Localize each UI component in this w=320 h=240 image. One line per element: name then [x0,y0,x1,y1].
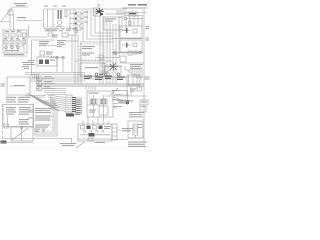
battery box with diagonal [11,126,36,141]
wire: divider 2 [112,52,143,54]
note text block right [130,64,143,69]
wire: legend internal drop [7,116,9,127]
wire: engine box lower rail [76,138,112,148]
wire: vertical drop from label [0,8,14,31]
wire: bottom rail left [2,139,72,144]
dark label right col [129,112,144,117]
wire: right frame vertical [143,9,145,142]
note text left margin [22,62,29,69]
relay box right col [140,100,148,105]
legend column 2 text [19,107,31,125]
relay box A outline [120,26,142,38]
terminal table [75,98,82,114]
connector pair P1 [37,76,56,80]
connector plug J2 hatched [100,99,107,104]
wire: connector pig-tails right [72,98,76,112]
wire: top frame bus [44,8,127,10]
relay label text [39,41,57,46]
motor label text [57,40,78,47]
fuse cell 2 [87,126,91,130]
legend header text row 1 [6,97,30,98]
switch marks on wire [50,56,65,59]
footnote text right [128,142,147,148]
control head box [37,56,57,67]
wire: main left vertical [32,40,56,76]
label text with underline [16,17,42,21]
lamp circle [57,20,63,27]
fuse cell 1 [81,126,85,130]
node label text top-left [13,3,28,7]
connector pair P2 [37,81,56,85]
bold net label 3 [117,73,125,80]
connector ring [139,51,142,54]
relay box label text [82,46,95,56]
connector label dark [66,114,80,117]
wire: divider [112,38,143,40]
ground symbol [41,129,46,132]
wire: harness bus band lower [25,89,66,98]
fuse cell 4 [84,126,104,133]
wire: fuse panel internal verticals [48,9,68,27]
wire: right area rail [105,95,147,97]
legend header text row 2 [6,99,29,102]
wire: bus verticals center-right [100,16,119,84]
heavy junction rail double line [37,84,144,86]
junction block box [87,91,113,117]
margin text left edge [1,84,6,87]
engine box label [104,126,111,129]
fuel pump box [128,121,143,138]
splice dark spot [126,90,129,105]
connector label text C100 [47,29,55,37]
legend column 1 text [6,107,16,115]
relay contact marks [102,64,105,74]
note text mid-bottom col [28,108,52,113]
wire: connector feeds left [48,95,66,112]
fuel sender element hatched [133,124,138,138]
wire: left margin dashes [2,104,4,142]
gauge G6 [16,40,26,44]
bulkhead connector C200 [66,95,72,113]
sender label text [117,128,133,131]
gauge G1 [5,31,9,37]
switch contacts dark cells [39,60,55,65]
capacitor C3 [134,51,137,54]
battery terminal dark [1,141,7,144]
splice ticks below rail [86,86,95,90]
relay coil component [100,55,104,59]
resistor element twin bars [58,10,62,19]
connector plug J1 hatched [90,99,97,104]
wire: harness bus band [25,73,143,82]
wire: fan drop verticals [51,96,55,110]
note text mid-bottom col 3 [35,125,50,128]
label box top-right [128,12,137,16]
wire: bottom right rail [110,138,143,140]
margin text right lower [145,77,150,80]
junction box small [120,56,126,62]
fuse F2 [75,17,88,21]
wire: diagonal harness fan [27,93,59,111]
wire: drops from switch [57,59,63,72]
indicator lamp L1 [5,46,8,49]
relay box dashed upper [80,44,104,60]
instrument cluster box [3,30,27,53]
cluster label text [4,50,24,55]
wire: ticks into engine box [83,117,108,125]
capacitor C1 small box [133,29,137,33]
connector hatch ticks [116,10,126,14]
diode D2 [122,43,131,48]
wire: lead right with label [113,101,128,104]
fuse F1 [70,9,88,31]
note text mid-bottom col 2 [28,116,52,121]
center junction web [95,58,122,78]
wire: staircase right [125,66,143,78]
wire: converging leads [113,97,127,104]
fuse F4 [75,27,83,30]
lower left panel box [7,77,30,95]
wire: box divider line [75,60,105,62]
capacitor C2 small box [133,43,137,47]
bold net label 1 [84,75,92,79]
legend box [3,105,33,127]
sender unit connector [112,124,117,140]
engine box bottom-center [78,124,112,141]
starter solenoid dark [80,133,110,137]
resistor pack right col [140,107,146,113]
wire: right horizontal 63 [120,62,144,64]
connector pair P3 [37,86,56,90]
blower switch box [62,33,78,37]
wire: nested L runs to right boxes [83,10,113,42]
resistor R3 [137,87,142,91]
relay box B outline [120,40,142,52]
switch S1 small box [8,10,13,15]
margin note text right [146,26,150,41]
wire: nested legend corners [35,101,57,136]
wire: lead right 2 with label [113,106,122,108]
wire label tags with leaders [112,90,129,100]
capacitor C4 [4,124,9,128]
switch box S2 [40,51,53,55]
inner box relay [89,106,108,115]
wire: cluster internal drops [4,36,25,52]
wire: cluster bottom rail [3,55,27,57]
ignition switch circle [113,51,117,55]
junction crossing cluster [94,4,105,16]
wire: right nested verticals [72,30,81,84]
note text above sender [120,101,133,102]
wire: right mid feed [112,52,143,54]
fuse block right box [127,75,140,85]
connector circle [124,17,143,20]
title block bar [122,4,147,8]
fuse panel box [44,6,73,28]
fuse cell 3 [93,126,97,130]
diode D1 [122,28,131,33]
ground G100 [103,72,108,77]
splice ticks on bus [33,74,39,78]
wire: riser from cluster [29,25,48,37]
gauge G5 [10,40,14,44]
wire: drops below rail right [127,86,131,96]
wire: feed line under title [105,13,146,16]
lamp circle small [75,30,78,33]
resistor R2 [128,51,132,55]
wire: legend drop vertical [33,103,35,128]
resistor label text [52,35,58,38]
dash label band under fuse panel [44,28,78,31]
gauge G3 [17,30,26,37]
relay box lower [80,63,105,76]
note text beside control head [28,60,35,65]
relay text right [130,89,136,92]
wire: junction internals [87,88,118,121]
bold net label 2 [95,73,112,80]
gauge G4 [4,40,8,44]
relay block K1 outline [104,17,126,30]
wire: battery ground lead [1,142,34,144]
wire: relay feeds vertical stubs [129,16,143,26]
battery label text [34,129,40,132]
indicator lamp L2 [11,46,14,49]
wire: leader diagonal top-left [1,7,13,21]
fuse F3 [75,22,88,26]
footnote text center [60,143,76,146]
gauge G2 [11,31,15,37]
indicator lamp L3 [17,46,20,49]
